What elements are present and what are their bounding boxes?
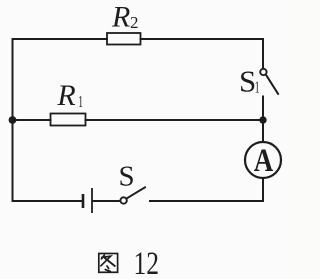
resistor R2 — [107, 33, 141, 45]
svg-text:S: S — [239, 63, 256, 98]
switch S1 — [260, 69, 278, 95]
node left junction — [9, 116, 17, 124]
caption character tu (figure) — [99, 254, 118, 273]
svg-text:2: 2 — [130, 13, 139, 32]
svg-text:S: S — [119, 161, 135, 193]
wire top-left segment — [13, 38, 108, 40]
wire right side between switch and node — [262, 97, 264, 121]
svg-text:1: 1 — [78, 92, 83, 111]
svg-text:R: R — [111, 0, 130, 33]
ammeter A — [245, 142, 281, 179]
wire bottom-left segment — [13, 200, 84, 202]
label R2 — [111, 0, 139, 33]
wire node to ammeter — [262, 120, 264, 142]
wire bottom-right segment — [150, 200, 263, 202]
wire top-right segment — [141, 38, 264, 40]
battery cell — [83, 188, 120, 213]
wire right side upper — [262, 39, 264, 69]
node right junction — [259, 116, 266, 123]
wire left side — [12, 39, 14, 201]
label S1 — [239, 63, 260, 98]
svg-text:1: 1 — [255, 77, 260, 96]
wire ammeter to bottom corner — [262, 179, 264, 202]
switch S — [120, 187, 145, 204]
svg-text:R: R — [56, 79, 75, 112]
svg-text:A: A — [254, 143, 274, 179]
wire middle-left segment — [13, 119, 51, 121]
wire middle-right segment — [86, 119, 264, 121]
label R1 — [56, 79, 83, 112]
resistor R1 — [51, 114, 86, 126]
svg-text:12: 12 — [134, 246, 160, 279]
